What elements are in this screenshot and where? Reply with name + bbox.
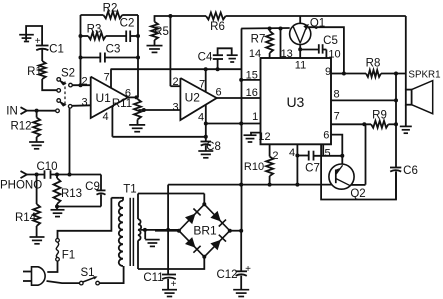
svg-text:U2: U2 bbox=[185, 90, 201, 104]
svg-text:R11: R11 bbox=[112, 98, 132, 110]
svg-text:R6: R6 bbox=[210, 21, 225, 33]
svg-text:R13: R13 bbox=[61, 188, 82, 200]
svg-text:C5: C5 bbox=[323, 35, 338, 47]
svg-text:14: 14 bbox=[249, 48, 261, 60]
svg-text:16: 16 bbox=[246, 87, 258, 99]
svg-text:8: 8 bbox=[333, 89, 339, 101]
svg-text:IN: IN bbox=[6, 106, 18, 118]
svg-text:7: 7 bbox=[199, 79, 205, 91]
svg-text:T1: T1 bbox=[123, 184, 136, 196]
svg-text:2: 2 bbox=[172, 76, 178, 88]
svg-text:R3: R3 bbox=[87, 24, 102, 36]
svg-text:+: + bbox=[171, 279, 177, 290]
svg-text:C6: C6 bbox=[403, 165, 418, 177]
svg-text:C11: C11 bbox=[143, 272, 163, 284]
svg-text:4: 4 bbox=[289, 147, 295, 159]
svg-text:C2: C2 bbox=[120, 18, 135, 30]
svg-text:R8: R8 bbox=[366, 58, 381, 70]
svg-text:BR1: BR1 bbox=[193, 224, 217, 238]
svg-text:+: + bbox=[245, 264, 251, 275]
svg-text:6: 6 bbox=[323, 130, 329, 142]
svg-text:11: 11 bbox=[295, 60, 306, 72]
svg-text:R14: R14 bbox=[15, 212, 37, 224]
svg-text:7: 7 bbox=[104, 72, 110, 84]
svg-text:R12: R12 bbox=[10, 121, 31, 133]
svg-text:SPKR1: SPKR1 bbox=[408, 69, 440, 80]
svg-text:C7: C7 bbox=[305, 163, 320, 175]
svg-text:R7: R7 bbox=[251, 34, 266, 46]
svg-text:R1: R1 bbox=[27, 66, 42, 78]
svg-text:4: 4 bbox=[102, 111, 108, 123]
svg-text:C12: C12 bbox=[216, 269, 237, 281]
svg-text:C3: C3 bbox=[106, 44, 121, 56]
svg-text:2: 2 bbox=[272, 150, 278, 162]
svg-text:2: 2 bbox=[81, 76, 87, 88]
svg-text:F1: F1 bbox=[62, 250, 75, 262]
svg-text:6: 6 bbox=[215, 87, 221, 99]
svg-text:7: 7 bbox=[334, 111, 340, 123]
svg-text:C4: C4 bbox=[198, 52, 213, 64]
svg-text:S1: S1 bbox=[80, 267, 94, 279]
svg-text:R9: R9 bbox=[372, 110, 387, 122]
svg-text:C10: C10 bbox=[36, 161, 57, 173]
svg-text:3: 3 bbox=[172, 102, 178, 114]
svg-text:U3: U3 bbox=[286, 94, 304, 110]
svg-text:R2: R2 bbox=[103, 3, 118, 15]
svg-text:9: 9 bbox=[325, 66, 331, 78]
svg-text:U1: U1 bbox=[96, 91, 112, 105]
svg-text:+: + bbox=[35, 36, 41, 47]
svg-text:1: 1 bbox=[252, 111, 258, 123]
svg-text:S2: S2 bbox=[61, 68, 75, 80]
svg-text:R5: R5 bbox=[154, 26, 169, 38]
svg-text:5: 5 bbox=[324, 148, 330, 160]
svg-text:4: 4 bbox=[198, 112, 204, 124]
svg-text:C1: C1 bbox=[49, 44, 64, 56]
svg-text:R10: R10 bbox=[244, 161, 264, 173]
svg-text:3: 3 bbox=[81, 97, 87, 109]
svg-text:13: 13 bbox=[281, 48, 293, 60]
svg-text:Q2: Q2 bbox=[350, 188, 365, 200]
